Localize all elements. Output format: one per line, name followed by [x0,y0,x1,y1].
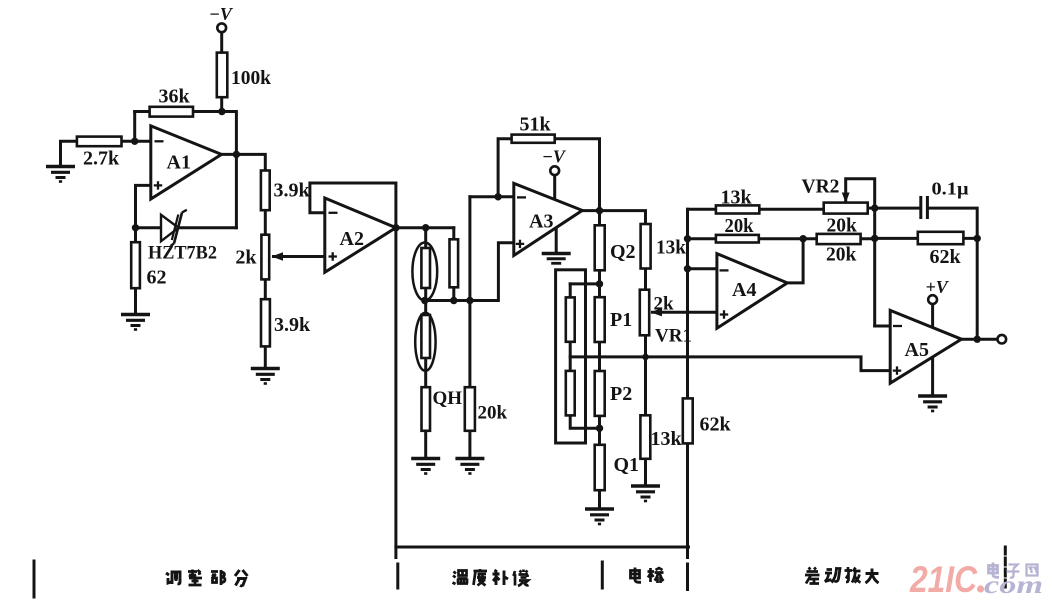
svg-text:VR2: VR2 [802,177,840,198]
svg-text:A1: A1 [167,152,191,174]
svg-text:A5: A5 [905,339,929,361]
svg-text:VR1: VR1 [655,326,692,347]
svg-text:51k: 51k [520,114,552,136]
svg-text:A3: A3 [529,211,553,233]
svg-text:100k: 100k [231,67,272,89]
svg-text:com: com [984,572,1043,599]
svg-text:62k: 62k [930,246,962,268]
svg-text:A4: A4 [732,279,756,301]
svg-text:62k: 62k [700,414,732,436]
svg-text:2.7k: 2.7k [83,148,120,170]
svg-text:20k: 20k [827,216,858,237]
svg-text:−V: −V [542,147,567,167]
svg-text:A2: A2 [340,228,364,250]
svg-text:3.9k: 3.9k [274,314,311,336]
svg-text:20k: 20k [725,216,754,237]
svg-text:−V: −V [209,4,234,24]
svg-text:Q2: Q2 [610,241,636,263]
svg-text:13k: 13k [656,237,687,259]
svg-text:P1: P1 [610,309,632,331]
svg-text:3.9k: 3.9k [274,180,311,202]
svg-text:13k: 13k [651,428,683,450]
svg-text:P2: P2 [610,383,632,405]
svg-text:2k: 2k [235,247,257,269]
svg-text:2k: 2k [654,294,675,315]
svg-text:13k: 13k [721,187,753,209]
svg-text:Q1: Q1 [614,454,640,476]
svg-text:20k: 20k [826,245,857,266]
svg-text:62: 62 [147,267,167,289]
svg-text:0.1μ: 0.1μ [932,179,969,199]
svg-text:QH: QH [433,388,463,409]
svg-text:21IC: 21IC [909,559,978,600]
svg-text:20k: 20k [478,403,508,424]
svg-text:+V: +V [926,277,950,297]
svg-text:36k: 36k [159,86,191,108]
svg-text:HZT7B2: HZT7B2 [148,243,217,264]
